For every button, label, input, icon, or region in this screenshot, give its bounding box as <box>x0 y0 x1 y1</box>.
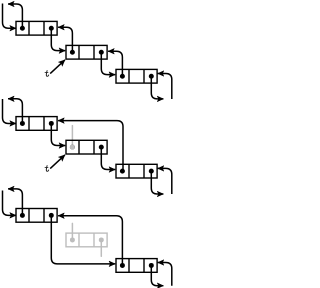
wire node3.prev -> node2 (stage 1) <box>108 51 122 76</box>
wire node1.next -> node3 bypass (stage 3) <box>51 215 115 264</box>
wire node1.next -> node2 (stage 1) <box>51 28 65 50</box>
node 1 (stage 3) prev-pointer dot <box>20 213 25 218</box>
node 3 (stage 3) box <box>116 259 157 273</box>
node 3 (stage 3) cell dividers <box>129 259 144 273</box>
node 1 (stage 2) cell dividers <box>29 117 44 131</box>
wire head pointer (stage 2) <box>3 99 17 123</box>
label t (stage 1) <box>46 71 48 77</box>
wire node2.next -> node3 (stage 1) <box>101 52 115 74</box>
node 2 (stage 1) next-pointer dot <box>99 50 104 55</box>
node 1 (stage 2) next-pointer dot <box>49 121 54 126</box>
wire node1.next -> node2 (stage 2) <box>51 123 65 145</box>
node 1 (stage 3) cell dividers <box>29 209 44 223</box>
pointer-t arrow (stage 2) <box>50 155 65 169</box>
wire tail prev arrow (stage 1) <box>158 74 172 100</box>
node 3 (stage 3) prev-pointer dot <box>120 263 125 268</box>
deleted node 2 grey (stage 3) prev-pointer dot <box>70 237 75 242</box>
node 2 (stage 2) cell dividers <box>79 140 94 154</box>
node 2 (stage 1) prev-pointer dot <box>70 50 75 55</box>
node 2 grey prev dot (stage 2) <box>70 145 75 150</box>
label t (stage 2) <box>46 166 48 172</box>
wire node1.prev arrow (stage 3) <box>8 189 22 215</box>
wire node1.prev arrow (stage 1) <box>8 4 22 28</box>
node 1 (stage 1) box <box>16 21 57 35</box>
node 3 (stage 2) prev-pointer dot <box>120 169 125 174</box>
node 2 (stage 1) box <box>66 45 107 59</box>
pointer-t arrow (stage 1) <box>50 60 65 74</box>
deleted node 2 grey (stage 3) box <box>66 233 107 247</box>
wire node3.next tail arrow (stage 3) <box>151 265 163 285</box>
node 2 (stage 2) prev-pointer dot <box>70 145 75 150</box>
node 1 (stage 2) prev-pointer dot <box>20 121 25 126</box>
node 1 (stage 2) box <box>16 117 57 131</box>
node 1 (stage 1) prev-pointer dot <box>20 26 25 31</box>
wire node1.prev arrow (stage 2) <box>8 99 22 124</box>
wire node3.prev -> node1 bypass (stage 2) <box>58 121 123 172</box>
wire head pointer (stage 3) <box>3 191 17 216</box>
node 3 (stage 2) next-pointer dot <box>149 169 154 174</box>
wire node3.prev -> node1 bypass (stage 3) <box>58 216 122 266</box>
wire node3.next tail arrow (stage 2) <box>151 171 163 194</box>
node 2 (stage 2) box <box>66 140 107 154</box>
deleted node 2 grey (stage 3) cell dividers <box>79 233 94 247</box>
wire old node2.prev grey stub (stage 2) <box>71 126 73 148</box>
node 3 (stage 3) next-pointer dot <box>149 263 154 268</box>
node 2 (stage 1) cell dividers <box>79 45 94 59</box>
node 3 (stage 1) cell dividers <box>129 69 144 83</box>
node 3 (stage 1) box <box>116 69 157 83</box>
wire deleted node2 prev grey stub (stage 3) <box>71 223 73 240</box>
wire node3.next tail arrow (stage 1) <box>151 76 163 99</box>
wire node2.next -> node3 (stage 2) <box>101 147 115 169</box>
node 2 (stage 2) next-pointer dot <box>99 145 104 150</box>
node 1 (stage 3) next-pointer dot <box>49 213 54 218</box>
node 3 (stage 1) prev-pointer dot <box>120 74 125 79</box>
node 3 (stage 1) next-pointer dot <box>149 74 154 79</box>
wire node2.prev -> node1 (stage 1) <box>58 27 72 52</box>
deleted node 2 grey (stage 3) next-pointer dot <box>99 237 104 242</box>
node 3 (stage 2) box <box>116 164 157 178</box>
node 1 (stage 1) next-pointer dot <box>49 26 54 31</box>
wire tail prev arrow (stage 2) <box>158 168 172 194</box>
wire tail prev arrow (stage 3) <box>158 263 172 286</box>
wire head pointer (stage 1) <box>3 4 17 29</box>
wire deleted node2 next grey stub (stage 3) <box>100 240 102 256</box>
node 3 (stage 2) cell dividers <box>129 164 144 178</box>
node 1 (stage 3) box <box>16 209 57 223</box>
node 1 (stage 1) cell dividers <box>29 21 44 35</box>
